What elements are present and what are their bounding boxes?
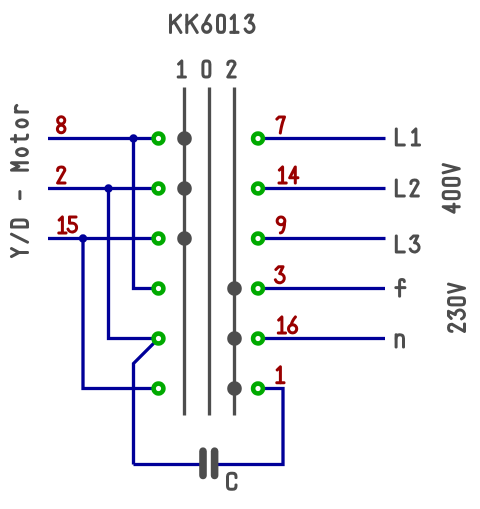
switch pole bar 3 [233,88,236,416]
contact dot row6 [227,381,242,396]
terminal left row6 [154,384,164,394]
wire pin 16 to n [264,337,385,340]
net label 400V [443,165,459,213]
pin number 14 [279,167,298,183]
wire capacitor left [134,463,200,466]
wire row1 junction down to row4 [134,139,153,289]
switch pole bar 1 [183,88,186,416]
terminal right pin 14 [253,184,263,194]
switch position label 1 [178,61,185,77]
label Y/D - Motor [12,105,28,256]
net label 230V [449,284,465,331]
wire pin 2 row2 [48,187,153,190]
switch position label 2 [228,61,235,77]
capacitor label C [228,473,237,489]
switch position label 0 [203,61,210,77]
terminal right pin 3 [253,284,263,294]
wire pin 8 row1 [48,137,153,140]
contact dot row2 [177,181,192,196]
wire pin 15 row3 [48,237,153,240]
wire capacitor right up to row6 [218,389,283,465]
pin number 9 [277,217,285,233]
pin number 1 [277,367,284,383]
wire row3 junction down to row6 [83,239,153,389]
terminal left pin 15 [154,234,164,244]
wire pin 3 to f [264,287,385,290]
terminal right pin 9 [253,234,263,244]
switch pole bar 2 [208,88,211,416]
wire pin 7 to L1 [264,137,386,140]
pin number 2 [58,167,65,183]
pin number 16 [278,317,296,333]
wire pin 14 to L2 [264,187,386,190]
contact dot row5 [227,331,242,346]
net label L1 [396,129,419,145]
title label KK6013 [171,15,255,32]
capacitor C plates [203,451,215,475]
net label L2 [396,180,418,196]
terminal left pin 2 [154,184,164,194]
terminal left row4 [154,284,164,294]
pin number 8 [57,117,65,133]
pin number 3 [275,267,284,283]
contact dot row3 [177,231,192,246]
contact dot row1 [177,131,192,146]
junction row2 [104,184,112,192]
pin number 15 [59,217,77,233]
junction row3 [79,234,87,242]
pin number 7 [277,117,285,133]
wire pin 9 to L3 [264,237,386,240]
net label n [396,335,403,347]
wire diagonal row5 to capacitor [134,339,159,465]
contact dot row4 [227,281,242,296]
terminal left row5 [154,334,164,344]
terminal right pin 1 [253,384,263,394]
terminal right pin 7 [253,134,263,144]
wire row2 junction down to row5 [109,189,153,339]
net label f [396,280,405,297]
terminal left pin 8 [154,134,164,144]
net label L3 [396,236,419,252]
terminal right pin 16 [253,334,263,344]
junction row1 [129,134,137,142]
